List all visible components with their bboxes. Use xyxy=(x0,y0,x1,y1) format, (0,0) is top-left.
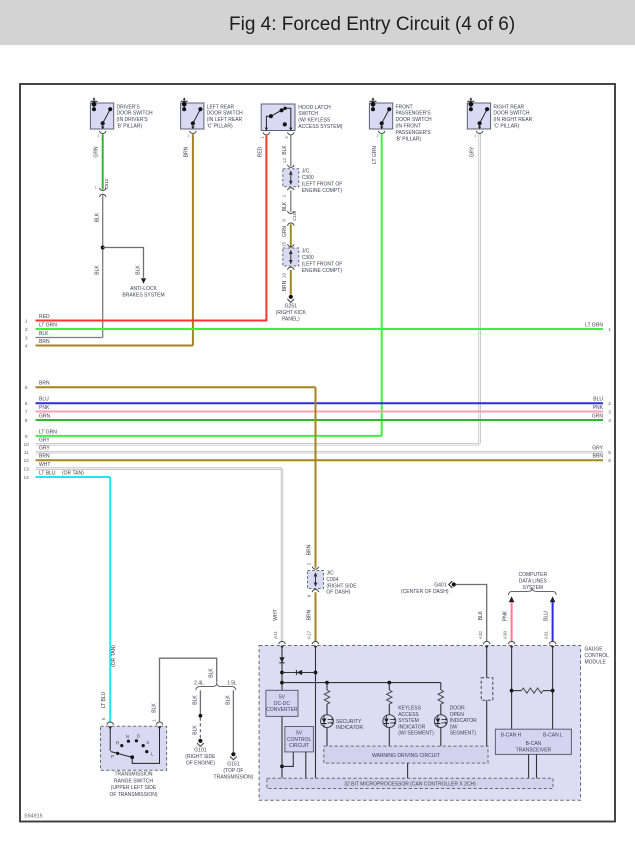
svg-text:ACCESS SYSTEM): ACCESS SYSTEM) xyxy=(298,124,343,130)
svg-text:GAUGE: GAUGE xyxy=(585,647,604,653)
svg-text:‘B’ PILLAR): ‘B’ PILLAR) xyxy=(117,124,143,130)
svg-text:GRY: GRY xyxy=(470,146,476,157)
svg-text:LT GRN: LT GRN xyxy=(372,146,378,164)
svg-text:(IN FRONT: (IN FRONT xyxy=(396,124,421,130)
svg-text:1′: 1′ xyxy=(474,134,477,138)
svg-text:ACCESS: ACCESS xyxy=(398,712,419,718)
svg-text:(TOP OF: (TOP OF xyxy=(223,768,243,774)
svg-text:C300: C300 xyxy=(302,175,314,181)
svg-text:B-CAN L: B-CAN L xyxy=(543,733,563,739)
svg-text:S94915: S94915 xyxy=(24,814,43,820)
svg-text:DOOR SWITCH: DOOR SWITCH xyxy=(396,117,432,123)
svg-text:(W/: (W/ xyxy=(450,724,458,730)
svg-text:TRANSMISSION): TRANSMISSION) xyxy=(214,775,254,781)
svg-text:BRN: BRN xyxy=(39,339,50,345)
svg-text:RED: RED xyxy=(257,146,263,157)
svg-text:BLK: BLK xyxy=(282,145,288,155)
svg-text:15: 15 xyxy=(282,242,287,248)
svg-text:CONTROL: CONTROL xyxy=(287,737,312,743)
svg-text:(IN DRIVER'S: (IN DRIVER'S xyxy=(117,117,149,123)
svg-text:LT GRN: LT GRN xyxy=(585,322,603,328)
svg-text:(UPPER LEFT SIDE: (UPPER LEFT SIDE xyxy=(111,785,157,791)
svg-text:GRY: GRY xyxy=(39,446,50,452)
svg-text:ENGINE COMPT): ENGINE COMPT) xyxy=(302,268,343,274)
svg-text:C146: C146 xyxy=(292,210,297,221)
svg-text:(OR TAN): (OR TAN) xyxy=(111,645,117,667)
svg-text:L: L xyxy=(151,752,154,757)
svg-text:9: 9 xyxy=(25,434,28,440)
svg-text:SECURITY: SECURITY xyxy=(336,719,362,725)
svg-text:RED: RED xyxy=(39,314,50,320)
svg-text:INDICATOR: INDICATOR xyxy=(450,718,477,724)
svg-text:N: N xyxy=(126,734,129,739)
svg-text:B-CAN H: B-CAN H xyxy=(501,733,522,739)
svg-text:DOOR SWITCH: DOOR SWITCH xyxy=(207,111,243,117)
svg-text:BLU: BLU xyxy=(544,611,550,621)
svg-text:12: 12 xyxy=(282,158,287,164)
svg-text:RANGE SWITCH: RANGE SWITCH xyxy=(114,778,153,784)
svg-text:BRN: BRN xyxy=(39,454,50,460)
svg-text:(LEFT FRONT OF: (LEFT FRONT OF xyxy=(302,182,343,188)
svg-text:MODULE: MODULE xyxy=(585,660,607,666)
svg-text:LEFT REAR: LEFT REAR xyxy=(207,104,235,110)
svg-text:12: 12 xyxy=(24,458,30,464)
svg-text:A17: A17 xyxy=(306,630,311,639)
svg-text:G251: G251 xyxy=(285,304,297,310)
svg-text:BLK: BLK xyxy=(478,610,484,620)
svg-text:14: 14 xyxy=(24,475,30,481)
svg-text:P: P xyxy=(111,754,114,759)
svg-text:1′: 1′ xyxy=(376,134,379,138)
svg-text:7: 7 xyxy=(25,409,28,415)
svg-text:SEGMENT): SEGMENT) xyxy=(450,731,477,737)
svg-text:PASSENGER'S: PASSENGER'S xyxy=(396,111,432,117)
svg-text:DOOR SWITCH: DOOR SWITCH xyxy=(117,111,153,117)
svg-text:OF TRANSMISSION): OF TRANSMISSION) xyxy=(110,792,158,798)
svg-text:PNK: PNK xyxy=(503,610,509,621)
svg-text:RIGHT REAR: RIGHT REAR xyxy=(493,104,524,110)
svg-text:INDICATOR: INDICATOR xyxy=(398,724,425,730)
svg-text:PNK: PNK xyxy=(593,405,604,411)
svg-text:BLK: BLK xyxy=(225,695,231,705)
svg-text:BRN: BRN xyxy=(184,146,190,157)
svg-text:(CENTER OF DASH): (CENTER OF DASH) xyxy=(401,589,449,595)
svg-text:1′: 1′ xyxy=(97,134,100,138)
svg-text:8: 8 xyxy=(25,418,28,424)
svg-text:SWITCH: SWITCH xyxy=(298,111,318,117)
svg-text:2: 2 xyxy=(25,327,28,333)
svg-text:BLK: BLK xyxy=(39,331,49,337)
svg-text:Fig 4: Forced Entry Circuit (4: Fig 4: Forced Entry Circuit (4 of 6) xyxy=(229,14,515,35)
svg-text:A32: A32 xyxy=(478,630,483,639)
svg-text:GRN: GRN xyxy=(282,226,288,238)
svg-text:G101: G101 xyxy=(194,748,206,754)
svg-text:1′: 1′ xyxy=(95,185,98,189)
svg-text:2.4L: 2.4L xyxy=(194,680,204,686)
svg-text:‘B’ PILLAR): ‘B’ PILLAR) xyxy=(396,136,422,142)
svg-text:BRN: BRN xyxy=(307,544,313,555)
svg-text:6: 6 xyxy=(608,458,611,464)
svg-text:TRANSCEIVER: TRANSCEIVER xyxy=(516,747,552,753)
svg-text:PASSENGER'S: PASSENGER'S xyxy=(396,130,432,136)
svg-text:A30: A30 xyxy=(502,630,507,639)
svg-text:ANTI-LOCK: ANTI-LOCK xyxy=(130,286,157,292)
svg-text:(RIGHT SIDE: (RIGHT SIDE xyxy=(185,754,216,760)
svg-text:(LEFT FRONT OF: (LEFT FRONT OF xyxy=(302,262,343,268)
svg-text:10: 10 xyxy=(24,442,30,448)
svg-text:8: 8 xyxy=(282,219,287,222)
svg-text:5: 5 xyxy=(25,385,28,391)
svg-text:B-CAN: B-CAN xyxy=(526,741,542,747)
svg-text:1: 1 xyxy=(152,719,157,722)
svg-text:OF ENGINE): OF ENGINE) xyxy=(186,761,216,767)
svg-text:INDICATOR: INDICATOR xyxy=(336,725,363,731)
svg-text:WARNING DRIVING CIRCUIT: WARNING DRIVING CIRCUIT xyxy=(372,753,440,759)
svg-text:1: 1 xyxy=(608,327,611,333)
svg-text:WHT: WHT xyxy=(39,462,50,468)
svg-text:CONVERTER: CONVERTER xyxy=(266,707,298,713)
svg-text:GRN: GRN xyxy=(592,413,604,419)
svg-text:BRN: BRN xyxy=(39,381,50,387)
svg-text:5: 5 xyxy=(101,717,106,720)
svg-text:C512: C512 xyxy=(104,178,109,189)
svg-text:1: 1 xyxy=(282,194,287,197)
svg-text:BLK: BLK xyxy=(192,725,198,735)
svg-text:OPEN: OPEN xyxy=(450,712,465,718)
svg-text:KEYLESS: KEYLESS xyxy=(398,706,421,712)
svg-text:BLU: BLU xyxy=(593,397,603,403)
svg-text:TRANSMISSION: TRANSMISSION xyxy=(114,772,152,778)
svg-text:4: 4 xyxy=(608,418,611,424)
svg-text:BRN: BRN xyxy=(592,454,603,460)
svg-text:BRN: BRN xyxy=(282,280,288,291)
svg-text:OF DASH): OF DASH) xyxy=(326,590,350,596)
svg-text:(W/ KEYLESS: (W/ KEYLESS xyxy=(298,118,331,124)
svg-text:BLK: BLK xyxy=(95,265,101,275)
svg-text:BLK: BLK xyxy=(135,265,141,275)
svg-text:(W/ SEGMENT): (W/ SEGMENT) xyxy=(398,731,434,737)
svg-text:S: S xyxy=(146,740,149,745)
svg-text:3: 3 xyxy=(25,335,28,341)
svg-text:GRN: GRN xyxy=(94,146,100,158)
svg-text:CIRCUIT: CIRCUIT xyxy=(289,743,309,749)
svg-text:BLU: BLU xyxy=(39,397,49,403)
svg-text:A11: A11 xyxy=(273,631,278,639)
svg-text:2: 2 xyxy=(306,562,311,565)
svg-text:J/C: J/C xyxy=(302,169,310,175)
svg-text:2: 2 xyxy=(284,136,289,139)
svg-text:J/C: J/C xyxy=(302,249,310,255)
svg-text:5V: 5V xyxy=(296,731,303,737)
svg-text:6: 6 xyxy=(306,594,311,597)
svg-text:1.5L: 1.5L xyxy=(227,680,237,686)
svg-text:LT GRN: LT GRN xyxy=(39,322,57,328)
svg-text:13: 13 xyxy=(24,467,30,473)
svg-text:BRAKES SYSTEM: BRAKES SYSTEM xyxy=(122,292,164,298)
svg-text:G401: G401 xyxy=(434,583,446,589)
svg-text:A31: A31 xyxy=(543,630,548,639)
svg-text:GRY: GRY xyxy=(39,438,50,444)
svg-text:2: 2 xyxy=(608,401,611,407)
svg-text:1: 1 xyxy=(260,136,265,139)
svg-text:GRN: GRN xyxy=(39,413,51,419)
svg-text:ENGINE COMPT): ENGINE COMPT) xyxy=(302,188,343,194)
svg-text:6: 6 xyxy=(25,401,28,407)
svg-text:G151: G151 xyxy=(227,762,239,768)
svg-text:FRONT: FRONT xyxy=(396,104,413,110)
svg-text:DOOR: DOOR xyxy=(450,706,465,712)
svg-text:HOOD LATCH: HOOD LATCH xyxy=(298,105,331,111)
svg-text:PNK: PNK xyxy=(39,405,50,411)
svg-text:3: 3 xyxy=(608,409,611,415)
svg-text:‘C’ PILLAR): ‘C’ PILLAR) xyxy=(207,124,233,130)
svg-text:COMPUTER: COMPUTER xyxy=(518,572,547,578)
svg-text:CONTROL: CONTROL xyxy=(585,653,610,659)
svg-text:5V: 5V xyxy=(279,695,286,701)
svg-text:WHT: WHT xyxy=(273,609,279,620)
svg-text:(IN RIGHT REAR: (IN RIGHT REAR xyxy=(493,117,532,123)
svg-text:(RIGHT KICK: (RIGHT KICK xyxy=(276,310,307,316)
svg-text:4: 4 xyxy=(25,343,28,349)
svg-text:1′: 1′ xyxy=(187,134,190,138)
svg-text:LT GRN: LT GRN xyxy=(39,429,57,435)
svg-text:BRN: BRN xyxy=(307,609,313,620)
svg-text:BLK: BLK xyxy=(282,201,288,211)
svg-text:GRY: GRY xyxy=(592,446,603,452)
svg-text:LT BLU: LT BLU xyxy=(101,691,107,708)
svg-text:(IN LEFT REAR: (IN LEFT REAR xyxy=(207,117,243,123)
svg-text:1: 1 xyxy=(25,318,28,324)
svg-text:10: 10 xyxy=(282,273,287,279)
svg-text:BLK: BLK xyxy=(209,668,215,678)
svg-text:‘C’ PILLAR): ‘C’ PILLAR) xyxy=(493,124,519,130)
svg-text:DATA LINES: DATA LINES xyxy=(519,579,548,585)
svg-text:(OR TAN): (OR TAN) xyxy=(62,470,84,476)
svg-text:SYSTEM: SYSTEM xyxy=(398,718,419,724)
svg-text:DRIVER'S: DRIVER'S xyxy=(117,104,141,110)
svg-text:(RIGHT SIDE: (RIGHT SIDE xyxy=(326,583,357,589)
svg-text:C300: C300 xyxy=(302,255,314,261)
svg-text:J/C: J/C xyxy=(326,571,334,577)
svg-text:BLK: BLK xyxy=(95,212,101,222)
svg-text:11: 11 xyxy=(24,450,29,456)
svg-text:32 BIT MICROPROCESSOR (CAN CON: 32 BIT MICROPROCESSOR (CAN CONTROLLER X … xyxy=(344,782,476,788)
svg-text:PANEL): PANEL) xyxy=(282,317,300,323)
svg-text:DC-DC: DC-DC xyxy=(274,701,290,707)
svg-text:BLK: BLK xyxy=(151,703,157,713)
svg-text:LT BLU: LT BLU xyxy=(39,470,56,476)
svg-text:DOOR SWITCH: DOOR SWITCH xyxy=(493,111,529,117)
svg-text:5: 5 xyxy=(608,450,611,456)
svg-text:BLK: BLK xyxy=(192,695,198,705)
svg-text:C004: C004 xyxy=(326,577,338,583)
